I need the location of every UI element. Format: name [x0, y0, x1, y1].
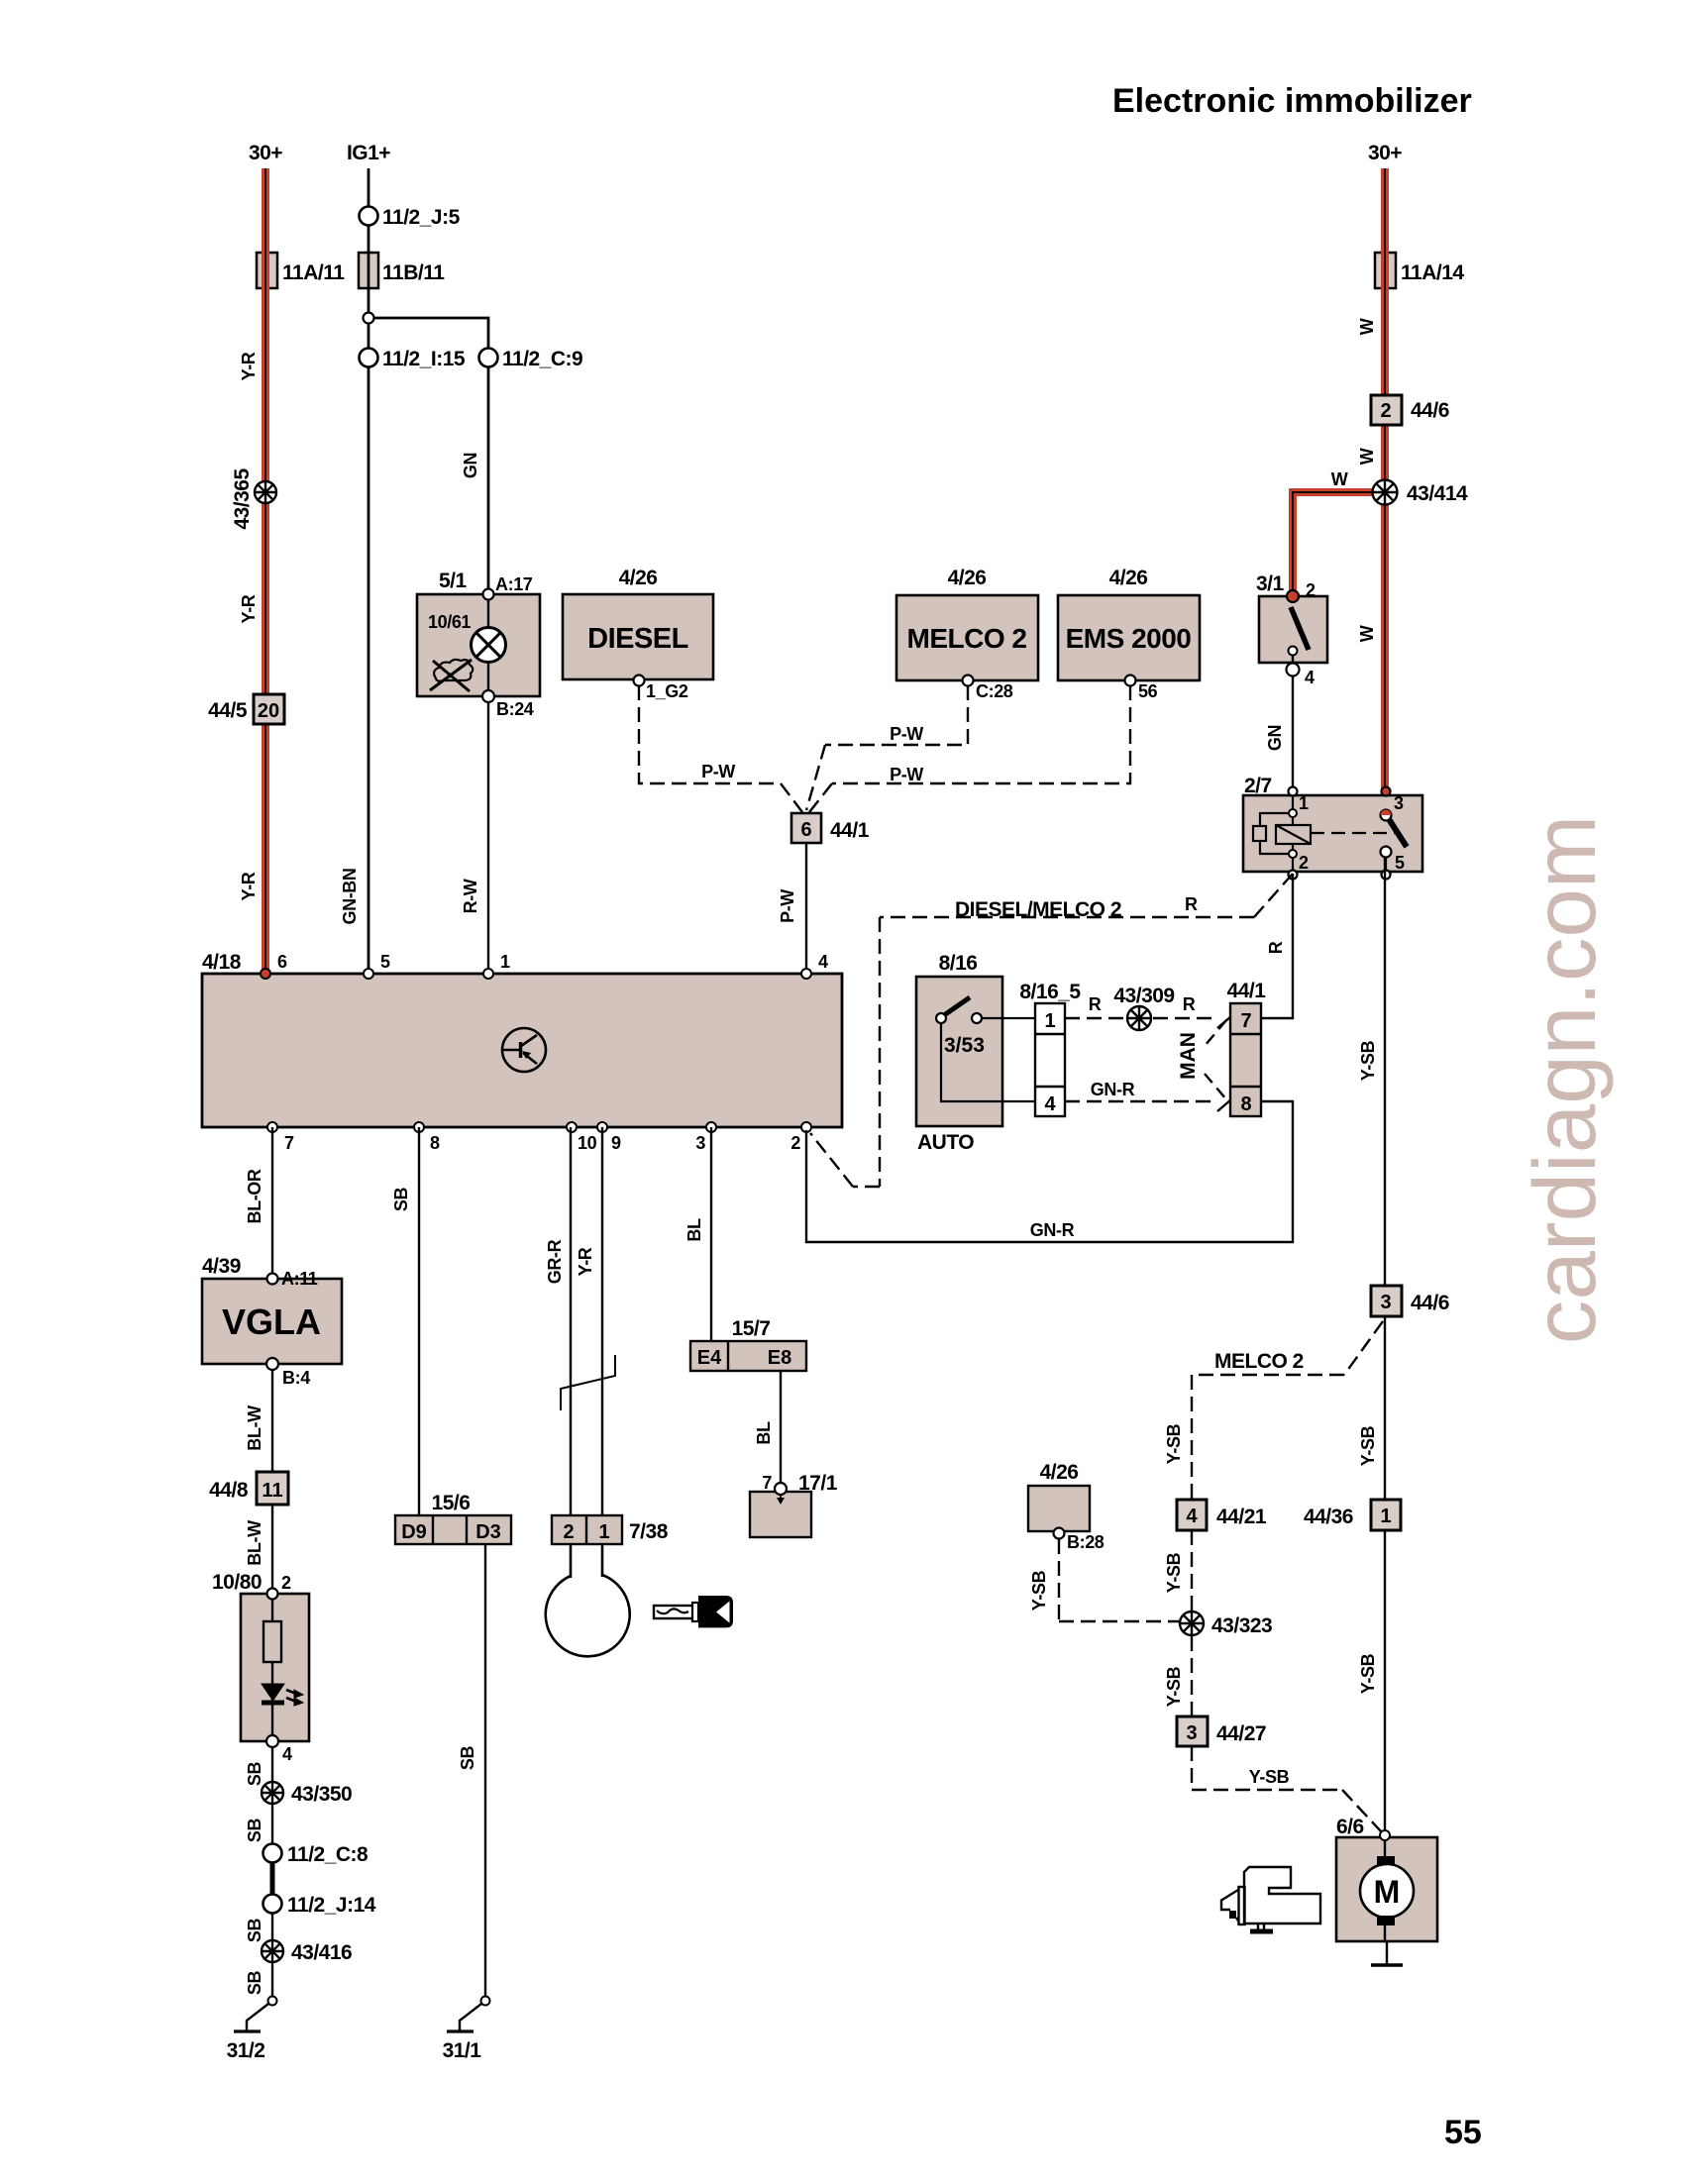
8/16 internal switch 3/53 — [936, 997, 1035, 1101]
transistor symbol inside 4/18 — [502, 1028, 546, 1072]
svg-text:11B/11: 11B/11 — [382, 261, 445, 284]
relay switch lever — [1389, 819, 1407, 847]
connector 11/2_I:15 — [360, 349, 378, 367]
svg-text:1: 1 — [500, 952, 510, 972]
svg-text:4/18: 4/18 — [202, 951, 242, 974]
junction node — [364, 313, 374, 324]
svg-text:4: 4 — [1186, 1506, 1198, 1527]
svg-text:cardiagn.com: cardiagn.com — [1515, 815, 1614, 1344]
relay pin 1 — [1289, 787, 1298, 796]
svg-text:Y-SB: Y-SB — [1358, 1653, 1378, 1694]
svg-text:43/416: 43/416 — [291, 1941, 352, 1964]
wire BL-W VGLA to 44/8 — [271, 1370, 273, 1472]
connector 8/16_5 — [1035, 1003, 1065, 1116]
svg-text:4/26: 4/26 — [948, 567, 987, 589]
switch 8/16 (AUTO) — [916, 977, 1002, 1126]
svg-text:Y-SB: Y-SB — [1358, 1040, 1378, 1081]
svg-text:43/365: 43/365 — [231, 468, 254, 530]
MAN option bracket — [1205, 1020, 1226, 1099]
unit 4/39 VGLA — [202, 1279, 342, 1364]
svg-text:GN-BN: GN-BN — [340, 869, 360, 925]
motor pin — [1380, 1830, 1390, 1840]
svg-text:15/7: 15/7 — [732, 1317, 771, 1340]
ground 31/1 — [481, 1997, 490, 2006]
svg-text:VGLA: VGLA — [222, 1301, 321, 1342]
svg-text:Y-R: Y-R — [239, 872, 259, 900]
svg-text:P-W: P-W — [890, 765, 923, 784]
connector 44/27 pin 3 — [1177, 1716, 1208, 1746]
svg-text:GN: GN — [461, 453, 480, 478]
svg-text:55: 55 — [1444, 2114, 1482, 2151]
unit 4/26 DIESEL — [563, 594, 713, 679]
wire SB 10/80 to ground 31/2 — [271, 1747, 273, 1997]
pin A:17 — [483, 589, 494, 600]
wire GR-R 4/18 pin 10 to 7/38 pin 2 — [570, 1127, 572, 1515]
connector 44/5 pin 20 — [254, 694, 284, 724]
svg-text:44/8: 44/8 — [209, 1479, 249, 1502]
svg-text:7: 7 — [762, 1473, 772, 1493]
relay pin 2 — [1289, 850, 1297, 858]
svg-text:DIESEL/MELCO 2: DIESEL/MELCO 2 — [955, 898, 1121, 921]
svg-text:P-W: P-W — [701, 762, 735, 781]
connector 11/2_J:14 — [263, 1895, 282, 1914]
unit 4/26 (small) — [1028, 1486, 1090, 1531]
svg-text:W: W — [1331, 469, 1348, 489]
svg-text:R: R — [1185, 894, 1198, 914]
svg-text:3: 3 — [695, 1133, 705, 1153]
svg-text:4/26: 4/26 — [1040, 1461, 1079, 1484]
svg-text:SB: SB — [245, 1971, 264, 1996]
connector 43/365 — [255, 481, 276, 503]
connector 44/6 pin 3 — [1371, 1286, 1402, 1316]
svg-text:1: 1 — [1380, 1506, 1391, 1527]
wire through 5/1 — [487, 594, 489, 974]
svg-text:EMS 2000: EMS 2000 — [1066, 623, 1192, 654]
4/18 pin 5 — [364, 969, 373, 979]
svg-text:AUTO: AUTO — [917, 1131, 974, 1154]
svg-text:GR-R: GR-R — [545, 1239, 565, 1284]
svg-text:W: W — [1357, 448, 1377, 465]
svg-text:GN: GN — [1265, 725, 1285, 751]
svg-text:5: 5 — [1395, 853, 1405, 873]
svg-text:30+: 30+ — [1368, 142, 1402, 164]
svg-text:Y-SB: Y-SB — [1164, 1666, 1184, 1707]
unit 4/26 EMS 2000 — [1058, 595, 1200, 680]
relay 2/7 — [1243, 795, 1422, 872]
wire SB D3 to ground 31/1 — [484, 1544, 486, 1997]
svg-text:Y-SB: Y-SB — [1249, 1767, 1290, 1787]
svg-text:MAN: MAN — [1177, 1032, 1200, 1080]
svg-text:4: 4 — [818, 952, 828, 972]
wire GN 3/1 pin 4 to relay 2/7 pin 1 — [1292, 656, 1294, 795]
connector 43/350 — [262, 1782, 283, 1804]
control unit 4/18 (immobilizer) — [202, 974, 842, 1127]
svg-text:6: 6 — [277, 952, 287, 972]
svg-text:B:4: B:4 — [282, 1368, 310, 1388]
wire Y-SB relay pin 5 to 6/6 motor — [1384, 857, 1386, 1835]
connector 43/309 — [1127, 1006, 1151, 1030]
svg-text:R: R — [1089, 994, 1102, 1014]
wire DIESEL/MELCO 2 dashed relay pin 2 to 4/18 pin 2 — [810, 874, 1293, 1187]
svg-text:44/1: 44/1 — [1227, 980, 1267, 1002]
svg-text:SB: SB — [245, 1919, 264, 1943]
thick link — [270, 1862, 275, 1895]
fuse 11B/11 — [359, 253, 378, 288]
wire W 30+ to relay 2/7 pin 3 (red) — [1381, 168, 1389, 810]
svg-text:4/26: 4/26 — [619, 567, 658, 589]
wire P-W 44/1 pin6 to 4/18 pin 4 — [805, 843, 807, 974]
3/1 pin 4 — [1287, 664, 1300, 676]
connector 43/416 — [262, 1940, 283, 1962]
4/18 pin 9 — [597, 1122, 607, 1132]
fuse 11A/14 — [1375, 253, 1396, 288]
pin B:28 — [1054, 1528, 1065, 1539]
LED unit 10/80 — [241, 1594, 309, 1741]
relay coil control dashed — [1311, 832, 1395, 834]
antenna coil wires — [570, 1544, 573, 1578]
ground 31/2 — [268, 1997, 277, 2006]
pin B:24 — [482, 690, 494, 702]
svg-text:3/53: 3/53 — [944, 1034, 985, 1057]
svg-text:D9: D9 — [401, 1521, 427, 1543]
svg-text:10/80: 10/80 — [212, 1571, 262, 1594]
svg-text:A:17: A:17 — [495, 574, 533, 594]
wire R dashed 8/16_5 pin1 to 44/1 pin 7 — [1065, 1017, 1125, 1019]
svg-text:11/2_I:15: 11/2_I:15 — [382, 348, 466, 370]
svg-text:11: 11 — [262, 1480, 282, 1502]
wire Y-SB dashed 44/21 to 43/323 — [1191, 1530, 1193, 1611]
svg-text:44/21: 44/21 — [1216, 1506, 1267, 1528]
svg-text:BL-OR: BL-OR — [245, 1169, 264, 1223]
svg-text:DIESEL: DIESEL — [587, 623, 688, 655]
wire GN-R dashed 8/16_5 pin4 to 44/1 pin 8 — [1065, 1100, 1214, 1102]
svg-text:SB: SB — [391, 1188, 411, 1212]
svg-text:SB: SB — [458, 1746, 477, 1771]
svg-text:6/6: 6/6 — [1336, 1816, 1364, 1838]
svg-text:1: 1 — [1044, 1010, 1055, 1032]
connector 44/21 pin 4 — [1177, 1500, 1207, 1530]
4/18 pin 1 — [483, 969, 493, 979]
motor unit 6/6 — [1336, 1837, 1437, 1941]
svg-text:BL: BL — [754, 1421, 774, 1445]
4/18 pin 4 — [801, 969, 811, 979]
connector 7/38 (pins 2/1) — [552, 1515, 622, 1544]
svg-text:8: 8 — [1240, 1093, 1251, 1115]
svg-text:3: 3 — [1380, 1292, 1391, 1313]
relay coil — [1253, 795, 1311, 872]
svg-text:1_G2: 1_G2 — [646, 681, 688, 701]
svg-text:Y-SB: Y-SB — [1358, 1425, 1378, 1466]
wire BL-OR 4/18 pin 7 to VGLA — [271, 1127, 273, 1279]
svg-text:11/2_J:14: 11/2_J:14 — [287, 1894, 376, 1917]
svg-text:Y-R: Y-R — [239, 594, 259, 623]
svg-text:2: 2 — [1299, 853, 1309, 873]
svg-text:43/350: 43/350 — [291, 1783, 352, 1806]
svg-text:R-W: R-W — [461, 879, 480, 913]
svg-text:44/6: 44/6 — [1411, 399, 1449, 422]
connector 44/1 pin 6 — [791, 813, 821, 843]
svg-text:BL-W: BL-W — [245, 1520, 264, 1566]
svg-text:4/26: 4/26 — [1109, 567, 1148, 589]
wire R relay pin 2 to 44/1 pin 7 — [1261, 874, 1293, 1018]
motor ground — [1386, 1941, 1388, 1965]
connector 44/6 pin 2 — [1371, 395, 1402, 425]
svg-text:Electronic immobilizer: Electronic immobilizer — [1112, 82, 1472, 120]
connector 11/2_C:8 — [263, 1844, 282, 1863]
unit 17/1 — [750, 1492, 811, 1537]
pin C:28 — [963, 676, 974, 686]
svg-text:11/2_C:9: 11/2_C:9 — [502, 348, 582, 370]
svg-text:1: 1 — [1299, 793, 1309, 813]
svg-text:Y-R: Y-R — [576, 1247, 595, 1276]
wire BL 4/18 pin 3 to 15/7 E4 — [710, 1127, 712, 1341]
pin 7 of 17/1 — [775, 1483, 787, 1495]
svg-text:3: 3 — [1186, 1722, 1197, 1744]
svg-text:4: 4 — [282, 1744, 292, 1764]
twist symbol on wires — [561, 1355, 615, 1410]
wire P-W dashed DIESEL to 44/1 pin 6 — [639, 685, 802, 812]
wire Y-R 4/18 pin 9 to 7/38 pin 1 — [601, 1127, 603, 1515]
svg-text:6: 6 — [800, 819, 811, 841]
wire Y-R 30+ to 4/18 pin 6 (red) — [262, 168, 269, 974]
svg-text:B:28: B:28 — [1067, 1532, 1105, 1552]
wire through 10/80 — [271, 1594, 273, 1741]
svg-text:B:24: B:24 — [496, 699, 534, 719]
svg-text:2: 2 — [563, 1521, 574, 1543]
svg-text:7: 7 — [284, 1133, 294, 1153]
unit 4/26 MELCO 2 — [896, 595, 1038, 680]
wire MELCO 2 dashed branch — [1192, 1321, 1383, 1500]
wire GN-R 44/1 pin 8 to 4/18 pin 2 — [806, 1101, 1293, 1242]
svg-text:44/1: 44/1 — [830, 819, 870, 842]
4/18 pin 3 — [706, 1122, 716, 1132]
svg-text:R: R — [1266, 941, 1286, 954]
LED symbol — [262, 1684, 303, 1706]
svg-text:11/2_J:5: 11/2_J:5 — [382, 206, 461, 229]
starter motor illustration — [1221, 1867, 1320, 1931]
wire IG1+ to 4/18 pin 5 — [368, 168, 370, 974]
svg-text:Y-R: Y-R — [239, 352, 259, 380]
connector 11/2_J:5 — [360, 207, 378, 226]
svg-text:4/39: 4/39 — [202, 1255, 241, 1278]
svg-text:2: 2 — [790, 1133, 800, 1153]
wire P-W dashed MELCO 2 to 44/1 pin 6 — [806, 685, 968, 810]
svg-text:BL: BL — [684, 1218, 704, 1242]
switch 3/1 — [1259, 596, 1327, 663]
wire SB 4/18 pin 8 to 15/6 D9 — [418, 1127, 420, 1515]
pin B:4 — [266, 1358, 278, 1370]
immobilizer antenna ring — [546, 1575, 630, 1656]
svg-text:5/1: 5/1 — [439, 570, 468, 592]
svg-text:A:11: A:11 — [281, 1269, 318, 1289]
relay pin 5 — [1381, 847, 1392, 858]
svg-text:10/61: 10/61 — [428, 612, 471, 632]
svg-text:2/7: 2/7 — [1244, 775, 1272, 797]
svg-text:44/6: 44/6 — [1411, 1292, 1449, 1314]
pin 2 of 10/80 — [267, 1589, 278, 1600]
connector 15/6 (D9/D3) — [395, 1515, 511, 1544]
svg-text:43/323: 43/323 — [1211, 1614, 1272, 1637]
pin 56 — [1125, 676, 1136, 686]
wire BL E8 to 17/1 — [780, 1371, 782, 1486]
svg-text:SB: SB — [245, 1819, 264, 1843]
svg-text:56: 56 — [1138, 681, 1158, 701]
wire P-W dashed EMS 2000 to 44/1 pin 6 — [809, 685, 1130, 812]
unit 5/1 (10/61 bulb) — [417, 594, 540, 696]
svg-text:7: 7 — [1240, 1010, 1251, 1032]
svg-text:43/414: 43/414 — [1407, 482, 1468, 505]
svg-text:9: 9 — [611, 1133, 621, 1153]
svg-text:IG1+: IG1+ — [347, 142, 390, 164]
connector 43/414 — [1373, 480, 1398, 505]
svg-text:2: 2 — [1380, 400, 1391, 422]
svg-text:44/36: 44/36 — [1304, 1506, 1353, 1528]
svg-text:44/5: 44/5 — [208, 699, 248, 722]
svg-text:17/1: 17/1 — [798, 1472, 838, 1495]
svg-text:SB: SB — [245, 1762, 264, 1787]
4/18 pin 2 — [801, 1122, 811, 1132]
svg-text:8/16_5: 8/16_5 — [1019, 981, 1081, 1003]
pin A:11 — [267, 1274, 278, 1285]
svg-text:10: 10 — [578, 1133, 597, 1153]
4/18 pin 6 — [261, 969, 270, 979]
svg-text:31/2: 31/2 — [227, 2039, 265, 2062]
svg-text:P-W: P-W — [890, 724, 923, 744]
lamp symbol 10/61 — [472, 628, 506, 663]
wire junction to 11/2_C:9 — [368, 318, 488, 594]
svg-text:C:28: C:28 — [976, 681, 1013, 701]
wire Y-SB dashed 43/323 to 44/27 — [1191, 1636, 1193, 1716]
svg-text:44/27: 44/27 — [1216, 1722, 1266, 1745]
svg-text:7/38: 7/38 — [629, 1520, 669, 1543]
connector 44/1 pins 7/8 — [1230, 1003, 1261, 1116]
svg-text:R: R — [1183, 994, 1196, 1014]
svg-text:30+: 30+ — [249, 142, 282, 164]
pin 1_G2 — [634, 676, 645, 686]
svg-text:5: 5 — [380, 952, 390, 972]
svg-text:3: 3 — [1394, 793, 1404, 813]
svg-text:4: 4 — [1044, 1093, 1056, 1115]
key symbol — [654, 1596, 733, 1627]
resistor inside 10/80 — [263, 1621, 281, 1662]
svg-text:Y-SB: Y-SB — [1164, 1552, 1184, 1593]
svg-text:W: W — [1357, 625, 1377, 642]
wire BL-W 44/8 to 10/80 — [271, 1505, 273, 1594]
svg-text:20: 20 — [258, 700, 279, 722]
svg-text:3/1: 3/1 — [1256, 572, 1285, 595]
svg-text:1: 1 — [598, 1521, 609, 1543]
connector 11/2_C:9 — [479, 349, 498, 367]
svg-text:E4: E4 — [697, 1347, 722, 1369]
connector 43/323 — [1180, 1612, 1204, 1635]
svg-text:15/6: 15/6 — [432, 1492, 471, 1514]
4/18 pin 10 — [567, 1122, 577, 1132]
svg-text:M: M — [1374, 1874, 1401, 1910]
svg-text:P-W: P-W — [778, 889, 797, 923]
svg-text:GN-R: GN-R — [1091, 1080, 1135, 1099]
svg-text:Y-SB: Y-SB — [1029, 1570, 1049, 1611]
svg-text:8: 8 — [430, 1133, 440, 1153]
fuse 11A/11 — [257, 253, 277, 288]
svg-text:31/1: 31/1 — [443, 2039, 482, 2062]
3/1 switch lever — [1291, 607, 1309, 650]
wire W branch 43/414 to 3/1 pin 2 (red) — [1293, 492, 1385, 594]
svg-text:4: 4 — [1305, 668, 1315, 687]
svg-text:W: W — [1357, 318, 1377, 335]
svg-text:2: 2 — [1306, 580, 1316, 600]
svg-text:Y-SB: Y-SB — [1164, 1423, 1184, 1464]
4/18 pin 8 — [414, 1122, 424, 1132]
svg-text:2: 2 — [281, 1573, 291, 1593]
connector 44/8 pin 11 — [257, 1472, 288, 1505]
svg-text:11/2_C:8: 11/2_C:8 — [287, 1843, 368, 1866]
wire Y-SB dashed 44/27 to motor — [1192, 1746, 1381, 1831]
pin 4 of 10/80 — [266, 1735, 278, 1747]
svg-text:BL-W: BL-W — [245, 1405, 264, 1451]
svg-text:E8: E8 — [768, 1347, 791, 1369]
crossed-out filament icon — [430, 660, 473, 691]
svg-text:11A/14: 11A/14 — [1401, 261, 1464, 284]
svg-text:MELCO 2: MELCO 2 — [907, 623, 1027, 654]
connector 44/36 pin 1 — [1371, 1500, 1401, 1530]
svg-text:11A/11: 11A/11 — [282, 261, 345, 284]
4/18 pin 7 — [267, 1122, 277, 1132]
wire Y-SB dashed B:28 to 43/323 — [1059, 1539, 1179, 1621]
motor symbol M — [1384, 1840, 1386, 1857]
svg-text:D3: D3 — [475, 1521, 501, 1543]
3/1 pin 2 (red) — [1287, 590, 1299, 602]
relay pin 3 (red) — [1382, 787, 1391, 796]
svg-text:43/309: 43/309 — [1113, 985, 1174, 1007]
svg-text:MELCO 2: MELCO 2 — [1214, 1350, 1304, 1373]
svg-text:8/16: 8/16 — [939, 952, 978, 975]
connector 15/7 (E4/E8) — [690, 1341, 806, 1371]
svg-text:GN-R: GN-R — [1030, 1220, 1075, 1240]
